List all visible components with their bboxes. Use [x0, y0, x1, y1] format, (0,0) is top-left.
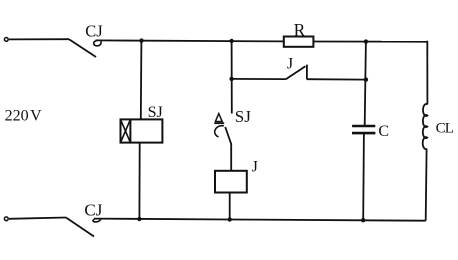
switch CJ bottom: blade [66, 218, 94, 237]
wire middle branch upper [231, 41, 233, 114]
contact SJ (time-delay): triangle [215, 114, 222, 122]
resistor R [284, 37, 314, 47]
wire C branch lower [362, 133, 365, 220]
svg-text:R: R [294, 20, 306, 40]
node: middle branch / J contact branch [229, 77, 233, 81]
relay coil SJ [121, 119, 163, 142]
wire J contact branch right [307, 78, 366, 80]
contact J: moving blade [286, 66, 306, 79]
wire middle branch lower [229, 193, 231, 220]
node: J contact branch / C branch [364, 77, 368, 81]
contact SJ: moving blade [225, 127, 231, 150]
svg-text:CL: CL [436, 120, 454, 136]
wire right branch lower (coil to bottom bus) [425, 149, 428, 221]
wire top bus (left of R) [96, 40, 285, 41]
svg-text:C: C [378, 123, 389, 140]
svg-text:220V: 220V [5, 107, 43, 124]
wire C branch upper [365, 42, 366, 125]
svg-text:SJ: SJ [235, 107, 251, 126]
svg-text:SJ: SJ [148, 104, 163, 121]
svg-text:J: J [287, 55, 293, 72]
wire bottom-left lead [9, 218, 66, 219]
switch CJ top: fixed contact hook [94, 41, 101, 46]
relay coil J [215, 171, 247, 193]
inductor CL [423, 104, 428, 149]
svg-text:CJ: CJ [84, 201, 102, 220]
node: top bus / C branch [364, 39, 368, 43]
wire top-left lead [9, 38, 69, 40]
contact SJ: base bar [214, 122, 224, 124]
wire right branch upper (top bus to coil) [426, 41, 428, 105]
switch CJ bottom: fixed contact hook [93, 219, 101, 222]
wire SJ coil branch lower [138, 143, 140, 220]
wire SJ coil branch upper [140, 41, 143, 120]
capacitor C [352, 126, 375, 133]
wire bottom bus [94, 219, 426, 221]
contact J: fixed contact [306, 65, 308, 80]
svg-text:J: J [252, 159, 258, 176]
node: bottom bus / C branch [361, 218, 365, 222]
node: top bus / SJ coil branch [139, 38, 143, 42]
terminal bottom-left [4, 217, 8, 221]
switch CJ top: blade [69, 39, 96, 57]
node: top bus / middle branch [229, 39, 233, 43]
svg-text:CJ: CJ [85, 21, 103, 40]
node: bottom bus / SJ coil branch [137, 217, 141, 221]
wire J contact branch left [232, 78, 286, 80]
terminal top-left [4, 38, 8, 42]
contact SJ: delay hook arc [215, 126, 224, 137]
wire top bus (right of R) [313, 41, 427, 43]
wire middle branch to J coil [230, 149, 232, 171]
node: bottom bus / J coil branch [228, 217, 232, 221]
